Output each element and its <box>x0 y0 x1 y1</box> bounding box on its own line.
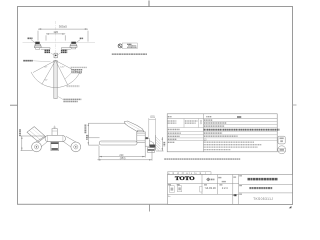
prohibition box line1 onegai <box>127 43 131 45</box>
side view dim label 240pm5 rotated <box>84 125 86 134</box>
leader spout tip <box>58 97 63 100</box>
plan view down spout cylinder <box>51 142 59 151</box>
fan line left lower <box>42 61 56 85</box>
right col row2 text <box>204 122 227 124</box>
cell mark A4 <box>232 195 234 196</box>
left col row labels <box>168 129 180 131</box>
prohibition icon <box>118 44 122 48</box>
svg-text:'14.03.19: '14.03.19 <box>205 186 216 190</box>
revision strip <box>168 172 212 175</box>
scale cell label <box>219 184 222 185</box>
stamp box 2 <box>177 186 181 192</box>
sheet frame <box>18 7 293 205</box>
front view centerline <box>55 21 57 99</box>
projection label <box>211 178 215 180</box>
svg-text:TOTO: TOTO <box>175 176 196 182</box>
label check-valve crank right (2 lines) <box>61 50 67 52</box>
side view bottom dimension (253) <box>97 150 152 161</box>
label spout tip (2 lines) <box>63 98 81 100</box>
plan view top spout nozzle <box>52 126 57 136</box>
label range note line1 <box>71 66 87 68</box>
fan line right lower <box>56 61 68 85</box>
side view right vertical dimension <box>156 137 164 151</box>
corner mark A4 <box>289 206 292 208</box>
fan line left upper <box>33 61 56 73</box>
right col row5 text <box>204 132 222 134</box>
center mark bottom <box>149 204 151 211</box>
product name kabetsuki single mixing faucet <box>248 178 278 181</box>
union crank right <box>70 42 77 49</box>
note below table <box>164 158 240 160</box>
header label left (hinban) <box>168 116 172 118</box>
prohibition box line2 <box>128 45 136 47</box>
plan view dimension 105 <box>21 136 45 151</box>
prohibition box line3 <box>127 46 137 48</box>
stamp circle <box>278 146 286 154</box>
plan view left wall flange <box>32 142 42 152</box>
svg-text:120: 120 <box>53 30 58 34</box>
plan view left arm <box>32 136 47 149</box>
stamp box 1 <box>170 186 175 193</box>
leader from right label to body <box>57 53 60 55</box>
right col row4 dark bullet note <box>204 129 280 131</box>
title block outline <box>168 175 293 205</box>
side view crank to wall <box>145 139 155 153</box>
svg-text:120°: 120° <box>60 66 65 68</box>
pipe right <box>61 48 70 50</box>
plan view lever handle <box>27 127 46 142</box>
label spout rotation stop <box>23 60 32 62</box>
side view wall line with hatching <box>156 135 161 151</box>
title block horizontal lines <box>168 183 293 194</box>
stamp box 3 <box>200 186 202 192</box>
svg-text:60°: 60° <box>45 80 48 82</box>
maru marks <box>200 120 202 122</box>
side view lever handle <box>124 121 143 133</box>
plan view dim label (105) rotated <box>19 129 21 136</box>
valve body center <box>54 53 57 58</box>
row label hinmei <box>239 175 242 176</box>
leader from left label to body <box>51 53 55 55</box>
stamp square <box>278 136 285 144</box>
side view lever neck <box>138 130 144 133</box>
installation note line <box>112 53 147 55</box>
note line 2 <box>204 144 262 146</box>
label spout swivel range (light gray) <box>67 85 80 87</box>
dimension D1 305+-5 <box>38 29 88 41</box>
left col cell1 sub labels <box>185 120 198 122</box>
approval stamps row labels <box>168 184 171 185</box>
dimension D2 120 <box>46 34 65 41</box>
side view dim label 120 rotated <box>163 142 165 146</box>
center mark top <box>148 1 150 7</box>
header small text <box>206 116 212 118</box>
spec table row lines <box>167 119 277 141</box>
unit cell label <box>218 177 221 178</box>
prohibition note box <box>122 43 137 49</box>
swivel view spout tube <box>54 61 57 99</box>
left col cell1 labels 2 lines <box>168 120 177 122</box>
right col row6 text <box>204 135 238 137</box>
side view left vertical dimension <box>88 123 125 145</box>
right col row3 text <box>204 125 224 127</box>
projection symbol <box>207 178 210 181</box>
svg-text:(111): (111) <box>150 115 155 118</box>
label range note line3 <box>71 71 82 73</box>
side view bottom dimension 220 <box>99 143 145 161</box>
svg-text:TKS05311J: TKS05311J <box>253 197 273 201</box>
plan view body capsule <box>45 135 65 141</box>
title block vertical lines <box>202 175 239 205</box>
union crank left <box>34 42 41 50</box>
plan view right arm <box>63 136 79 149</box>
fold mark left <box>10 104 18 106</box>
svg-text:No.: No. <box>168 196 171 198</box>
spec table outer <box>167 114 277 152</box>
product subname eco-single ippan <box>249 187 272 189</box>
date cell label <box>204 184 207 185</box>
header shiyou centered <box>237 116 241 118</box>
svg-text:(253): (253) <box>120 157 126 160</box>
spec table header row line <box>167 118 277 120</box>
leader label cold side (17) <box>80 37 84 39</box>
fold mark right <box>293 104 297 106</box>
side view valve body <box>137 132 145 142</box>
side view dim label (60) rotated <box>86 135 88 140</box>
note line 3 <box>204 146 258 148</box>
note line 1 <box>204 141 254 143</box>
plan view right wall flange <box>71 142 81 152</box>
spec table column divider <box>202 114 204 152</box>
leader label hot side (yu-gawa) <box>28 37 33 39</box>
label range note line2 <box>71 69 82 71</box>
label stop-valve crank left (2 lines) <box>45 50 51 52</box>
fan line right upper <box>56 61 81 74</box>
front view union axis line <box>23 42 96 44</box>
note line 4 <box>204 149 231 151</box>
side view spout tube <box>99 141 137 145</box>
svg-text:1:2.4: 1:2.4 <box>222 186 228 190</box>
svg-text:305±5: 305±5 <box>59 24 67 28</box>
pipe left <box>41 48 50 50</box>
zuban cell label <box>233 177 236 178</box>
svg-text:60°: 60° <box>44 66 47 68</box>
crank nut at body <box>146 137 148 139</box>
swivel arc <box>31 72 80 88</box>
right col row1 text <box>204 119 213 121</box>
